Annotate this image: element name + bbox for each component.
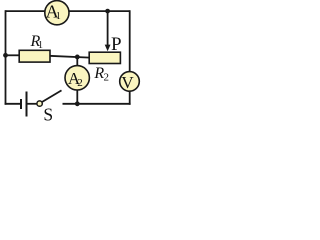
ammeter A1 — [45, 1, 69, 25]
wire middle rail right segment — [49, 56, 90, 58]
wire slider arrow shaft — [107, 11, 109, 46]
svg-text:2: 2 — [77, 77, 83, 89]
wire right — [129, 10, 131, 105]
battery negative plate — [20, 99, 22, 109]
wire left — [5, 10, 7, 105]
switch S pivot — [37, 101, 42, 106]
resistor R1 — [19, 50, 50, 62]
svg-text:2: 2 — [104, 71, 110, 83]
wire middle rail left lead — [6, 54, 21, 56]
switch S blade — [42, 90, 62, 102]
ammeter A2 — [65, 66, 89, 90]
slider arrowhead — [105, 45, 111, 52]
wire battery to switch — [27, 103, 38, 105]
wire A2 branch — [76, 57, 78, 104]
svg-text:V: V — [121, 73, 134, 92]
wire top — [6, 10, 130, 12]
svg-text:1: 1 — [56, 11, 61, 22]
node rail A2 junction — [75, 55, 80, 60]
svg-text:S: S — [43, 105, 53, 123]
node bottom A2 junction — [75, 101, 80, 106]
battery positive plate — [26, 92, 28, 117]
svg-text:1: 1 — [38, 40, 43, 51]
node top arrow junction — [105, 9, 110, 14]
node left rail junction — [3, 53, 8, 58]
rheostat R2 — [89, 52, 120, 63]
wire bottom right (switch contact to frame) — [63, 103, 131, 105]
voltmeter V — [120, 72, 140, 92]
svg-text:P: P — [111, 34, 122, 55]
wire bottom left (battery to frame) — [5, 103, 21, 105]
